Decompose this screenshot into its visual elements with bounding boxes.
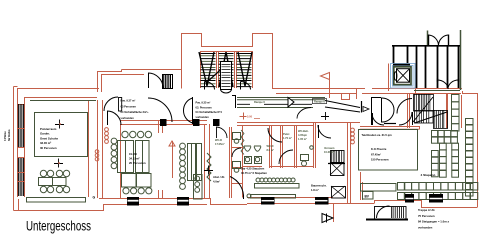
door arc wc-beh [318, 125, 331, 138]
stack row A2 [432, 137, 439, 144]
section pole club [172, 141, 174, 178]
svg-text:34.15m²: 34.15m² [129, 156, 139, 160]
stair exit door arc left [205, 82, 215, 90]
elevator door oval [394, 72, 397, 80]
wall outer-offset-left [14, 87, 18, 211]
grille double door bottom [437, 80, 459, 89]
survey cross red x243 [240, 113, 247, 120]
svg-text:Pav. 9.37 m²: Pav. 9.37 m² [121, 99, 136, 103]
stair exit door arc right [241, 82, 251, 90]
closet stair hatch [331, 151, 345, 163]
wall room-divider x270 [270, 125, 272, 168]
grille door top posts [429, 35, 449, 46]
svg-text:10.30 m²: 10.30 m² [324, 150, 335, 154]
elevator frame blue inner [393, 66, 414, 87]
wc-d toilets [244, 146, 261, 151]
svg-text:1.05 m²: 1.05 m² [298, 137, 307, 141]
wall entry-recess inner [101, 74, 144, 92]
ramp2 arrowhead [363, 107, 369, 112]
svg-text:Untergeschoss: Untergeschoss [26, 218, 91, 234]
svg-text:03. Personen: 03. Personen [196, 105, 213, 109]
wall corridor-south left part [120, 121, 207, 125]
stack bottom row2 [398, 193, 405, 200]
wall elevator sides [389, 64, 416, 94]
svg-text:WC-D: WC-D [215, 138, 222, 142]
closet x-box2 [332, 187, 346, 199]
svg-text:4 Stapelst.: 4 Stapelst. [421, 173, 437, 177]
green corridor line top [30, 100, 96, 102]
stack col D [432, 151, 439, 158]
grille green bottom [414, 90, 460, 92]
elevator frame blue outer [391, 64, 416, 89]
wall inner-left [24, 97, 26, 197]
ramp1 mid line [237, 103, 312, 105]
wall main-north inner [276, 93, 461, 95]
ramp1 label2 box [313, 99, 327, 104]
svg-text:03 Personen: 03 Personen [121, 104, 137, 108]
survey cross 2 [54, 159, 63, 168]
radiator coil left-low [95, 150, 99, 154]
door arc pav room2 [148, 98, 172, 122]
wall room-divider x313 [314, 122, 316, 168]
grille verticals short [393, 46, 395, 64]
spiral stair door arc [397, 99, 412, 114]
grille frame green right [460, 30, 462, 90]
wall room-divider x281 [281, 125, 283, 168]
svg-text:1.8 m²: 1.8 m² [311, 188, 319, 192]
survey cross 1 [55, 120, 64, 129]
svg-text:04 Vorhaltefläche 3m²+: 04 Vorhaltefläche 3m²+ [121, 110, 150, 114]
wall stub x356 [356, 89, 358, 100]
svg-text:75 Personen: 75 Personen [418, 214, 435, 218]
wall right-top-corner [463, 91, 478, 94]
svg-text:33.00 m²: 33.00 m² [40, 141, 51, 145]
wc column toilets [233, 133, 241, 140]
svg-text:4.0m²: 4.0m² [213, 179, 220, 183]
grille top bar [392, 45, 460, 47]
wall south double left [99, 199, 207, 205]
wall under teich room [360, 126, 420, 129]
door arc wc column mid [232, 148, 241, 157]
vorraum door arc sw [372, 113, 384, 125]
external stair treppe [366, 219, 408, 221]
svg-text:Abst. UG: Abst. UG [213, 175, 225, 179]
wall main-north outer [272, 88, 462, 90]
wall top-inner-left [24, 97, 97, 99]
svg-text:CLUB: CLUB [129, 152, 137, 156]
svg-text:Pav. 9.35 m²: Pav. 9.35 m² [196, 101, 211, 105]
svg-text:Teichboden ca. 31.5 qm: Teichboden ca. 31.5 qm [362, 133, 393, 137]
ramp left wall black [232, 95, 236, 108]
wall room-divider x360 short [361, 172, 363, 200]
club second table [197, 144, 202, 181]
wall left-window-dividers [17, 105, 24, 182]
entry window hatch [163, 74, 171, 88]
svg-text:vorhanden: vorhanden [196, 115, 210, 119]
svg-text:04 Vorhaltefläche N°4: 04 Vorhaltefläche N°4 [196, 110, 223, 114]
svg-text:vorhanden: vorhanden [418, 225, 433, 229]
wall south inner mid [247, 197, 333, 199]
flag marker pole center [329, 73, 331, 98]
left room chairs bottom [40, 186, 46, 192]
wall bottom-left-block [14, 199, 121, 211]
svg-text:67.45m²: 67.45m² [371, 152, 381, 156]
thresholds left pair [128, 198, 139, 206]
svg-text:30 Personen: 30 Personen [40, 146, 57, 150]
wall stair-bay x408 [408, 93, 410, 128]
svg-text:Rampe 6: Rampe 6 [314, 100, 325, 104]
club long table [188, 144, 196, 181]
wall entry-recess left [98, 70, 122, 93]
wall corridor-south right part [237, 123, 360, 126]
stair treads bay2 g [219, 56, 234, 84]
stair treads bay3 g [237, 56, 252, 84]
coat hooks row [256, 178, 260, 182]
door arc club north [104, 97, 118, 111]
small circle mark [310, 146, 314, 150]
svg-text:4.05qm: 4.05qm [298, 133, 308, 137]
bench table1 [255, 184, 300, 189]
svg-text:WC-D: WC-D [267, 144, 274, 148]
svg-text:150 Personen: 150 Personen [371, 158, 389, 162]
double door arcs x186 [183, 98, 192, 123]
ramp1 lines [237, 98, 325, 108]
wall room-divider x204 [205, 124, 210, 198]
svg-text:vorhanden: vorhanden [121, 116, 135, 120]
bench bottom-left [27, 198, 86, 203]
elevator top bar [393, 64, 410, 66]
ramp door triangle [288, 98, 294, 108]
svg-text:3 Plätze: 3 Plätze [3, 131, 7, 141]
svg-text:84 Steigungen = 1.0m x: 84 Steigungen = 1.0m x [418, 220, 449, 224]
closet x-box1 [331, 163, 345, 176]
red dash line x247 [254, 118, 260, 120]
section pole club arrow [169, 141, 175, 146]
wall top-outer-left [17, 88, 99, 90]
door arc abst [230, 177, 244, 200]
wall south outer mid [247, 203, 374, 205]
elevator cab [397, 69, 410, 83]
svg-text:17.05m²: 17.05m² [215, 142, 225, 146]
svg-text:Treppe A UG: Treppe A UG [418, 208, 435, 212]
wall wc-south [243, 166, 314, 168]
svg-text:5.00: 5.00 [247, 114, 253, 118]
stair treads bay1 [201, 54, 216, 87]
door arc wc-beh low [279, 150, 293, 164]
thresholds right pair [406, 195, 414, 203]
svg-text:WC-Beh.: WC-Beh. [298, 129, 309, 133]
club chairs bottom row [123, 188, 129, 194]
flag pole right-bottom [333, 204, 335, 222]
svg-text:Omni Schuhe: Omni Schuhe [40, 136, 58, 140]
stair landing rect [221, 62, 232, 90]
door arc pav room [107, 111, 121, 125]
stair bay dividers [201, 51, 253, 88]
elevator X [397, 69, 410, 83]
wall room-divider x347 [348, 122, 351, 204]
stair treads bay2 [219, 54, 234, 87]
svg-text:20 Personen: 20 Personen [129, 161, 146, 165]
wc-d radiator zigzag [241, 130, 244, 155]
spiral stair diagonals [413, 97, 447, 123]
left wall window hatch [18, 104, 23, 128]
teich room rect [359, 130, 418, 171]
wall south step x207 [207, 199, 247, 205]
svg-text:Vorraum: Vorraum [324, 146, 335, 150]
coat zigzag x207 [207, 153, 211, 181]
grille frame green left-top [427, 31, 429, 46]
wall stair-bay right x446 [447, 93, 448, 128]
stair tower outline [182, 34, 273, 89]
ramp2 diagonals [325, 101, 360, 113]
wall right-outer [477, 93, 479, 207]
bench table2 [251, 195, 296, 199]
svg-text:Bar 4.25 Stauchen: Bar 4.25 Stauchen [241, 167, 265, 171]
stack col B [440, 143, 447, 150]
grille door bottom hinges [438, 79, 459, 83]
wall room-divider x295 [295, 125, 297, 168]
wall wc-col stubs [231, 148, 243, 184]
stair diag connect [206, 63, 228, 83]
spiral stair upper flight [414, 95, 434, 112]
spiral stair lower flight [434, 111, 448, 129]
wall entry-recess top [122, 69, 182, 71]
wall outer-left [17, 88, 19, 197]
vorraum double door [381, 98, 394, 122]
vorraum door arc se [399, 112, 412, 125]
stair V bay1 [199, 52, 214, 86]
stair treads bay1 g [201, 56, 216, 84]
svg-text:K.O-Theorie: K.O-Theorie [371, 147, 387, 151]
left room chairs top [40, 170, 46, 176]
wall room-divider x88 [88, 100, 90, 197]
flag A bottom [322, 214, 333, 223]
svg-text:für Rollst.: für Rollst. [7, 129, 11, 141]
radiator coil x352 [351, 128, 355, 132]
stack bottom row1 [398, 183, 405, 191]
stair tower inner top [201, 51, 252, 53]
wall south right [375, 201, 478, 208]
club shelf bottom [194, 175, 203, 200]
wc-beh toilet [301, 155, 309, 161]
elevator green shaft [394, 67, 411, 85]
svg-text:Putzr.: Putzr. [283, 132, 290, 136]
ramp south door arc [297, 108, 311, 119]
left room tables [39, 178, 67, 186]
flag marker head center [321, 73, 330, 80]
svg-text:Polsterraum: Polsterraum [40, 127, 57, 131]
club chairs col x114 [111, 138, 117, 144]
ramp2 jamb [361, 101, 363, 113]
stack col C [452, 95, 460, 102]
svg-text:8.0 m²: 8.0 m² [267, 148, 275, 152]
closet divider [328, 163, 345, 165]
bench right long [361, 184, 397, 192]
svg-text:1.70 m²: 1.70 m² [283, 136, 292, 140]
club chairs top row [122, 131, 128, 137]
wall room-divider x97-x102 [98, 100, 103, 198]
survey cross 3 [204, 166, 213, 175]
stair V bay3 [238, 52, 252, 86]
stair landing treads [222, 65, 231, 87]
club chairs col x182 [180, 143, 186, 149]
stack row A1 [432, 131, 439, 138]
door arc wc column top [216, 127, 227, 138]
stair treads bay3 [237, 54, 252, 87]
grille verticals long [416, 46, 418, 88]
door threshold line x384 [384, 123, 396, 125]
wall castellation x341 [335, 94, 357, 100]
vorraum door jamb [371, 97, 381, 125]
stack far-right col [466, 119, 474, 126]
wall room-divider x158 partial [159, 120, 163, 198]
stair landing oval [221, 89, 232, 93]
stair V bay2 [219, 52, 233, 87]
corridor piers [161, 120, 167, 126]
wall room-divider x120 [120, 124, 122, 198]
svg-text:Rampe 6: Rampe 6 [254, 100, 265, 104]
wall room-divider x243 [242, 125, 244, 198]
door arc wc-d [268, 128, 282, 142]
wc-d sinks [245, 157, 252, 164]
entry door arc [148, 73, 163, 88]
svg-text:Garder.: Garder. [40, 132, 50, 136]
spiral stair mid flight [415, 111, 434, 124]
grille double door top [428, 35, 448, 46]
club tables left pair [118, 141, 134, 173]
club chairs low col [180, 184, 186, 190]
svg-text:Bauernschr.: Bauernschr. [311, 184, 327, 188]
svg-text:G: G [93, 196, 96, 200]
club tables bottom row [122, 174, 137, 188]
bv box [363, 192, 374, 200]
room polsterraum rect [35, 113, 88, 157]
thresholds mid pair [262, 198, 275, 205]
wall right-inner [461, 95, 463, 128]
survey cross 4 [321, 112, 329, 120]
radiator coil corridor-left [105, 128, 109, 132]
wall wc-col x229 [230, 127, 232, 198]
svg-text:30.75 m² 6 Stapelten: 30.75 m² 6 Stapelten [241, 171, 267, 175]
stack col C2 [452, 143, 459, 150]
